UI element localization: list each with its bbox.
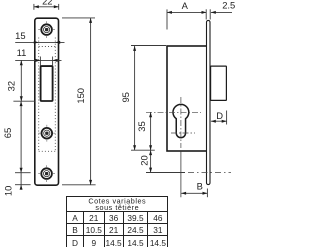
dim 10	[20, 173, 22, 190]
euro cylinder hole	[173, 104, 189, 137]
dim 11 line	[15, 57, 61, 67]
svg-text:150: 150	[75, 88, 86, 104]
svg-text:39.5: 39.5	[127, 213, 144, 223]
dim 20	[150, 150, 152, 172]
svg-text:9: 9	[91, 238, 96, 247]
cylinder axis extension to dim B	[180, 152, 182, 198]
svg-text:36: 36	[109, 213, 119, 223]
backplate strip	[207, 20, 211, 184]
svg-text:14.5: 14.5	[127, 238, 144, 247]
follower cutout	[41, 66, 53, 101]
plate bottom extension line	[15, 184, 31, 186]
dim 65	[20, 101, 22, 173]
lock case outline	[167, 46, 207, 151]
hidden case dotted outline	[39, 38, 56, 152]
svg-text:B: B	[72, 225, 78, 235]
dim 35	[150, 112, 152, 150]
backplate extension ticks to dim A	[205, 9, 207, 19]
svg-text:35: 35	[136, 121, 147, 131]
dim 22	[34, 4, 59, 10]
cylinder centerlines	[146, 97, 201, 148]
table	[67, 196, 168, 247]
dim 15 line	[15, 41, 64, 43]
svg-text:65: 65	[2, 128, 13, 138]
svg-text:A: A	[72, 213, 78, 223]
svg-text:21: 21	[89, 213, 99, 223]
dim B	[181, 192, 207, 194]
svg-text:11: 11	[17, 47, 27, 58]
svg-text:B: B	[197, 181, 203, 192]
lower axis extension line	[15, 172, 31, 174]
svg-text:10.5: 10.5	[86, 225, 103, 235]
dim 95	[131, 46, 166, 151]
svg-text:D: D	[216, 110, 223, 121]
dim A	[167, 11, 206, 13]
svg-text:sous têtière: sous têtière	[95, 203, 139, 212]
dim 150	[62, 18, 96, 185]
svg-text:A: A	[182, 0, 189, 11]
bottom screw	[38, 165, 55, 182]
dim 32	[20, 60, 22, 101]
svg-text:10: 10	[3, 186, 14, 196]
svg-text:14.5: 14.5	[150, 238, 167, 247]
dim D	[211, 120, 227, 122]
svg-text:2.5: 2.5	[222, 0, 235, 11]
svg-text:24.5: 24.5	[127, 225, 144, 235]
svg-text:20: 20	[138, 155, 149, 165]
svg-text:21: 21	[109, 225, 119, 235]
cutout bottom extension line	[13, 100, 34, 102]
svg-text:32: 32	[6, 81, 17, 91]
svg-text:14.5: 14.5	[106, 238, 123, 247]
svg-text:15: 15	[15, 30, 25, 41]
svg-text:31: 31	[153, 225, 163, 235]
lower axis line	[146, 172, 185, 174]
svg-text:95: 95	[120, 92, 131, 102]
svg-text:D: D	[72, 238, 78, 247]
svg-text:46: 46	[153, 213, 163, 223]
svg-text:22: 22	[42, 0, 52, 6]
middle screw	[38, 125, 55, 142]
top screw	[38, 21, 55, 38]
deadbolt	[211, 66, 227, 100]
faceplate outline	[35, 18, 59, 185]
dim 2.5	[211, 11, 232, 13]
